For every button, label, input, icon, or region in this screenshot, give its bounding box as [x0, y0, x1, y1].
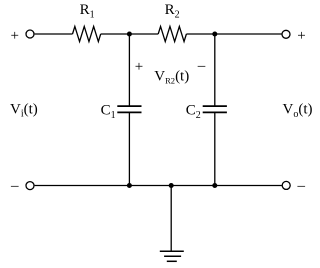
- ground wire: [170, 186, 172, 252]
- junction dot bottom of C2: [212, 183, 217, 188]
- svg-text:Vi(t): Vi(t): [10, 102, 38, 120]
- output terminal - (bottom right): [282, 181, 290, 189]
- resistor R1: [73, 2, 101, 42]
- svg-text:–: –: [297, 178, 306, 194]
- wire top rail: node B to output terminal: [215, 33, 282, 35]
- svg-text:+: +: [135, 59, 143, 75]
- label VR2(t) across R2: [135, 58, 206, 86]
- capacitor C1: [101, 103, 142, 122]
- wire C1 upper segment: [128, 34, 130, 106]
- junction dot bottom of C1: [127, 183, 132, 188]
- svg-text:–: –: [10, 178, 19, 194]
- wire C2 lower segment: [214, 112, 216, 185]
- wire C2 upper segment: [214, 34, 216, 106]
- input terminal + (top left): [26, 30, 34, 38]
- node B junction dot (top of C2): [212, 32, 217, 37]
- wire top rail: input terminal to R1: [35, 33, 73, 35]
- svg-text:+: +: [297, 28, 305, 44]
- svg-text:Vo(t): Vo(t): [283, 102, 313, 120]
- wire top rail: R2 to node B: [186, 33, 214, 35]
- node A junction dot (top of C1): [127, 32, 132, 37]
- svg-text:+: +: [11, 28, 19, 44]
- svg-text:–: –: [197, 58, 206, 74]
- input terminal - (bottom left): [26, 182, 34, 190]
- bottom rail wire: [35, 185, 282, 187]
- junction dot ground node: [169, 183, 174, 188]
- ground: [160, 251, 184, 261]
- wire C1 lower segment: [128, 112, 130, 185]
- capacitor C2: [186, 103, 227, 122]
- wire top rail: node A to R2: [129, 33, 158, 35]
- output terminal + (top right): [282, 30, 290, 38]
- wire top rail: R1 to node A: [101, 33, 130, 35]
- resistor R2: [158, 2, 186, 42]
